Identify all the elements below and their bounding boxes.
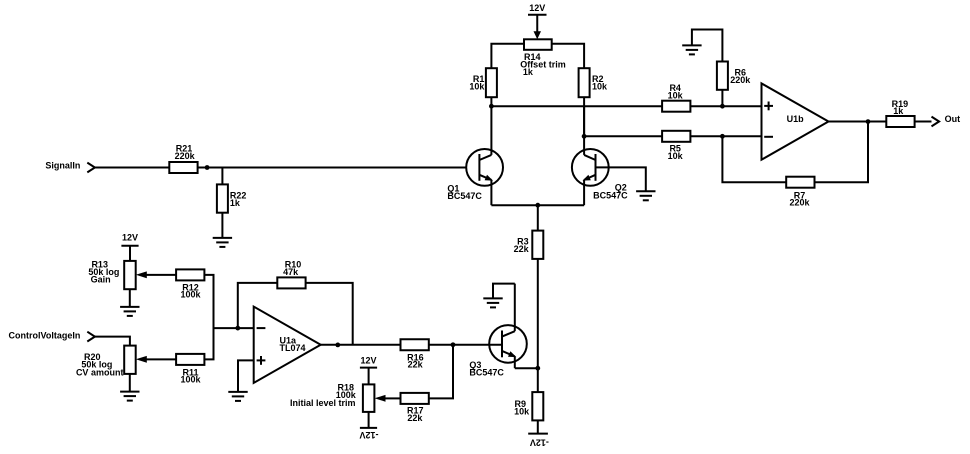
trimmer R18 — [290, 383, 385, 412]
wire — [537, 205, 539, 230]
wire — [198, 167, 480, 169]
port SignalIn — [45, 161, 95, 173]
trimmer R14 — [520, 39, 566, 77]
svg-text:100k: 100k — [180, 375, 201, 385]
power 12V — [360, 356, 377, 385]
svg-text:100k: 100k — [180, 290, 201, 300]
ground — [228, 392, 247, 401]
op-amp U1a — [254, 307, 321, 383]
wire — [690, 135, 761, 137]
wire — [815, 122, 869, 183]
wire — [306, 283, 353, 345]
resistor R16 — [401, 339, 429, 369]
resistor R2 — [579, 68, 608, 97]
node U1a- — [235, 326, 240, 331]
wire (feedback) — [238, 283, 277, 328]
wire — [692, 30, 723, 62]
node — [720, 104, 725, 109]
resistor R11 — [176, 354, 204, 385]
wire — [583, 97, 585, 137]
svg-text:12V: 12V — [122, 233, 138, 243]
svg-text:10k: 10k — [514, 407, 530, 417]
svg-text:-12V: -12V — [530, 438, 549, 448]
wire — [596, 167, 646, 191]
resistor R7 — [786, 177, 814, 208]
potentiometer R20 — [76, 346, 147, 378]
wire (R13 wiper to R12) — [145, 274, 176, 276]
svg-text:22k: 22k — [407, 413, 423, 423]
wire — [491, 204, 537, 206]
node B — [582, 134, 587, 139]
svg-text:1k: 1k — [230, 198, 241, 208]
node — [205, 165, 210, 170]
resistor R22 — [217, 184, 247, 212]
resistor R12 — [176, 269, 204, 299]
power -12V — [528, 420, 549, 447]
wire (Q3 collector to ground) — [493, 284, 515, 299]
wire (R20 wiper to R11) — [145, 358, 176, 360]
wire — [538, 204, 584, 206]
svg-text:10k: 10k — [592, 81, 608, 91]
wire (summing bar) — [204, 275, 213, 360]
ground — [636, 191, 655, 200]
svg-text:220k: 220k — [730, 75, 751, 85]
resistor R9 — [514, 392, 543, 420]
wire — [429, 345, 453, 399]
wire — [491, 44, 524, 68]
wire — [214, 327, 254, 329]
resistor R19 — [886, 99, 914, 127]
port ControlVoltageIn — [9, 330, 95, 341]
wire — [537, 259, 539, 392]
wire — [584, 135, 662, 137]
resistor R21 — [169, 144, 197, 174]
svg-text:ControlVoltageIn: ControlVoltageIn — [9, 330, 81, 340]
svg-text:BC547C: BC547C — [469, 368, 504, 378]
potentiometer R13 — [88, 260, 146, 290]
ground — [120, 392, 139, 401]
node Q3b — [451, 342, 456, 347]
resistor R3 — [514, 231, 544, 259]
svg-text:-12V: -12V — [359, 430, 378, 440]
node A — [489, 104, 494, 109]
wire — [129, 289, 131, 307]
power 12V — [121, 233, 138, 261]
svg-text:BC547C: BC547C — [593, 190, 628, 200]
wire — [129, 374, 131, 392]
svg-text:U1b: U1b — [787, 114, 805, 124]
wire — [429, 344, 502, 346]
svg-text:12V: 12V — [529, 3, 545, 13]
svg-text:10k: 10k — [668, 151, 684, 161]
resistor R4 — [662, 83, 690, 112]
resistor R1 — [469, 68, 497, 97]
wire (U1a + to ground) — [238, 360, 254, 392]
transistor Q2 — [572, 106, 628, 205]
power -12V — [359, 412, 378, 440]
svg-text:47k: 47k — [283, 267, 299, 277]
wire (Q3 emitter) — [515, 367, 538, 369]
ground — [483, 298, 502, 307]
svg-text:1k: 1k — [523, 67, 534, 77]
node U1a out — [335, 343, 340, 348]
svg-text:Out: Out — [945, 114, 961, 124]
resistor R10 — [277, 260, 305, 289]
svg-text:10k: 10k — [668, 90, 684, 100]
svg-text:22k: 22k — [408, 360, 424, 370]
svg-text:SignalIn: SignalIn — [45, 161, 80, 171]
ground — [120, 307, 139, 316]
resistor R5 — [662, 131, 690, 161]
svg-text:12V: 12V — [360, 356, 376, 366]
transistor Q1 — [447, 106, 503, 205]
port Out — [915, 114, 961, 127]
svg-text:Initial level trim: Initial level trim — [290, 398, 356, 408]
wire — [95, 337, 130, 346]
svg-text:BC547C: BC547C — [447, 191, 482, 201]
wire — [829, 121, 887, 123]
wire — [95, 167, 169, 169]
ground — [213, 238, 232, 247]
wire — [690, 105, 761, 107]
svg-text:1k: 1k — [893, 106, 904, 116]
wire — [221, 168, 223, 185]
wire — [721, 90, 723, 106]
wire — [490, 97, 492, 107]
wire — [221, 213, 223, 238]
op-amp U1b — [762, 83, 829, 159]
wire — [491, 105, 662, 107]
svg-text:Gain: Gain — [91, 274, 111, 284]
wire (R17 to R18 wiper) — [385, 397, 401, 399]
resistor R17 — [401, 393, 429, 423]
wire — [552, 44, 584, 68]
svg-text:10k: 10k — [469, 81, 485, 91]
resistor R6 — [717, 62, 751, 90]
node E — [535, 203, 540, 208]
ground — [682, 45, 701, 54]
transistor Q3 — [469, 284, 526, 378]
power 12V — [528, 3, 547, 39]
svg-text:TL074: TL074 — [280, 343, 306, 353]
wire (feedback) — [722, 136, 786, 182]
node — [720, 134, 725, 139]
wire (U1a output) — [321, 344, 401, 346]
node Q3e — [535, 366, 540, 371]
svg-text:22k: 22k — [514, 244, 530, 254]
svg-text:220k: 220k — [175, 151, 196, 161]
node OUT — [866, 119, 871, 124]
svg-text:CV amount: CV amount — [76, 368, 124, 378]
svg-text:220k: 220k — [789, 198, 810, 208]
